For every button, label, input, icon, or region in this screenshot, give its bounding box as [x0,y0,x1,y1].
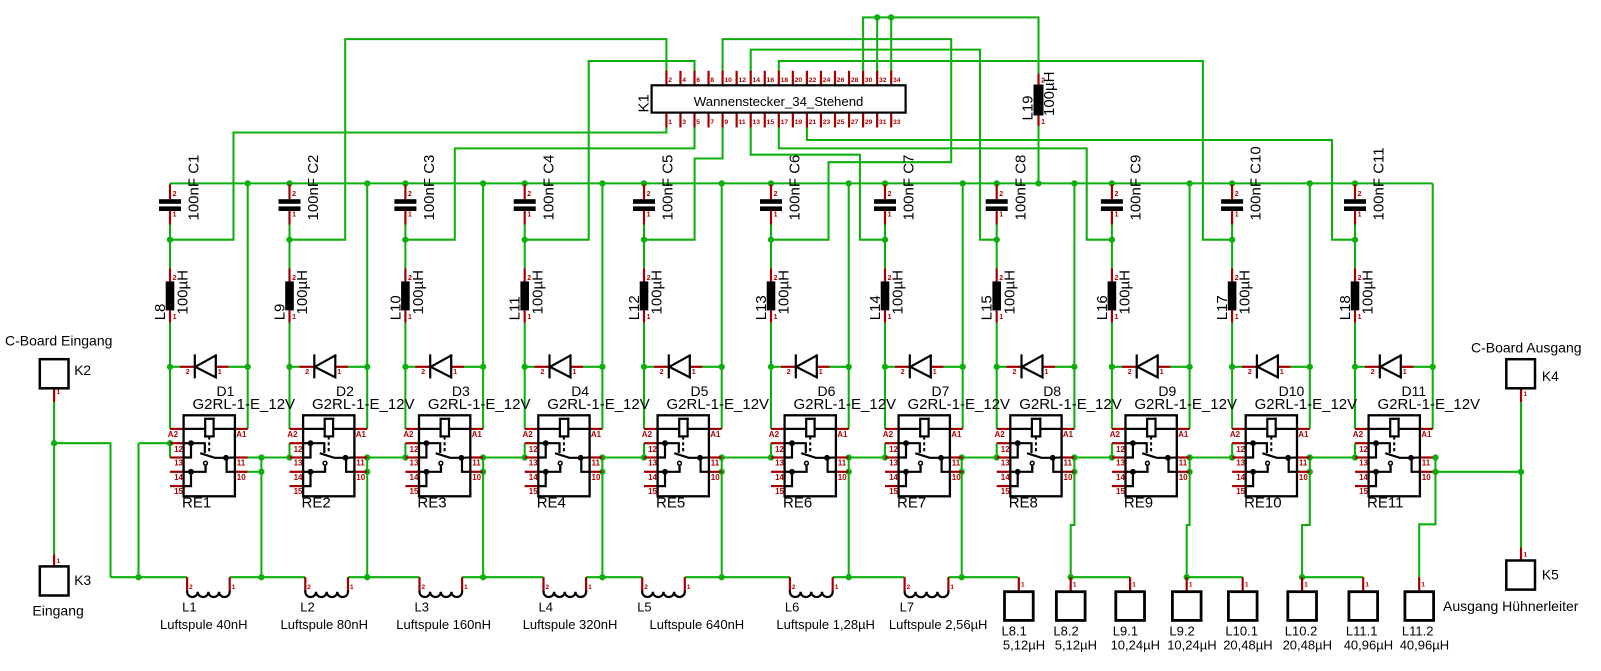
svg-text:23: 23 [823,119,831,126]
svg-text:RE10: RE10 [1244,495,1282,512]
svg-text:10: 10 [1064,473,1073,482]
svg-text:G2RL-1-E_12V: G2RL-1-E_12V [547,396,650,413]
svg-text:13: 13 [1359,458,1368,467]
svg-text:L10: L10 [387,295,404,320]
svg-text:K3: K3 [74,573,91,588]
svg-text:100µH: 100µH [1041,71,1058,116]
svg-text:2: 2 [1248,369,1252,376]
svg-text:2: 2 [408,191,412,198]
svg-text:Luftspule 160nH: Luftspule 160nH [396,617,491,632]
svg-text:21: 21 [809,119,817,126]
svg-text:2: 2 [1358,191,1362,198]
svg-text:100nF C9: 100nF C9 [1128,155,1145,221]
svg-text:40,96µH: 40,96µH [1400,638,1449,653]
svg-text:2: 2 [660,369,664,376]
svg-text:11: 11 [237,458,246,467]
svg-text:1: 1 [1358,212,1362,219]
svg-text:Luftspule 1,28µH: Luftspule 1,28µH [776,617,875,632]
svg-text:2: 2 [901,369,905,376]
svg-text:K4: K4 [1542,369,1559,384]
svg-text:L11: L11 [507,296,524,320]
svg-text:1: 1 [173,212,177,219]
svg-text:1: 1 [1045,369,1049,376]
svg-text:13: 13 [294,458,303,467]
svg-text:10: 10 [1422,473,1431,482]
svg-text:32: 32 [879,77,887,84]
svg-text:RE2: RE2 [302,495,331,512]
svg-text:10: 10 [952,473,961,482]
svg-text:1: 1 [687,584,691,591]
svg-text:G2RL-1-E_12V: G2RL-1-E_12V [908,396,1011,413]
svg-text:13: 13 [753,119,761,126]
svg-text:100nF C5: 100nF C5 [660,155,677,221]
svg-text:RE7: RE7 [897,495,926,512]
svg-text:L13: L13 [753,295,770,320]
svg-text:A1: A1 [472,430,483,439]
svg-text:A2: A2 [1353,430,1364,439]
svg-text:L9.1: L9.1 [1113,624,1138,639]
svg-text:2: 2 [1013,369,1017,376]
svg-text:7: 7 [710,119,714,126]
svg-text:100nF C4: 100nF C4 [540,155,557,221]
svg-text:Ausgang Hühnerleiter: Ausgang Hühnerleiter [1443,598,1579,614]
svg-text:A1: A1 [1421,430,1432,439]
svg-text:RE9: RE9 [1124,495,1153,512]
svg-text:14: 14 [648,473,657,482]
svg-text:1: 1 [933,369,937,376]
svg-text:18: 18 [781,77,789,84]
svg-text:L18: L18 [1337,295,1354,320]
svg-text:1: 1 [819,369,823,376]
svg-text:A2: A2 [403,430,414,439]
svg-text:A1: A1 [236,430,247,439]
svg-text:11: 11 [738,119,745,126]
svg-text:10: 10 [356,473,365,482]
svg-text:1: 1 [774,212,778,219]
svg-text:L4: L4 [539,600,553,615]
svg-text:1: 1 [835,584,839,591]
svg-text:20,48µH: 20,48µH [1223,638,1272,653]
svg-text:2: 2 [189,584,193,591]
svg-text:11: 11 [356,458,365,467]
svg-text:1: 1 [1115,212,1119,219]
svg-text:A1: A1 [837,430,848,439]
svg-text:1: 1 [1160,369,1164,376]
svg-text:G2RL-1-E_12V: G2RL-1-E_12V [794,396,897,413]
svg-text:2: 2 [186,369,190,376]
svg-text:1: 1 [999,212,1003,219]
svg-text:2: 2 [999,191,1003,198]
svg-text:1: 1 [232,584,236,591]
svg-text:2: 2 [527,191,531,198]
svg-text:1: 1 [218,369,222,376]
svg-text:L7: L7 [900,600,914,615]
svg-text:K2: K2 [74,363,91,378]
svg-text:A1: A1 [710,430,721,439]
svg-text:12: 12 [410,445,419,454]
svg-text:2: 2 [774,191,778,198]
svg-text:100µH: 100µH [294,270,311,315]
svg-text:G2RL-1-E_12V: G2RL-1-E_12V [1019,396,1122,413]
svg-text:3: 3 [682,119,686,126]
svg-text:100nF C11: 100nF C11 [1371,147,1388,220]
svg-text:14: 14 [174,473,183,482]
svg-text:G2RL-1-E_12V: G2RL-1-E_12V [428,396,531,413]
svg-text:2: 2 [644,584,648,591]
svg-text:1: 1 [57,389,61,396]
svg-text:A2: A2 [642,430,653,439]
svg-text:L11.2: L11.2 [1402,624,1434,639]
svg-text:2: 2 [422,584,426,591]
svg-text:G2RL-1-E_12V: G2RL-1-E_12V [193,396,296,413]
svg-text:29: 29 [865,119,873,126]
svg-text:12: 12 [648,445,657,454]
svg-text:33: 33 [893,119,901,126]
svg-text:14: 14 [753,77,761,84]
svg-text:12: 12 [1001,445,1010,454]
svg-text:Wannenstecker_34_Stehend: Wannenstecker_34_Stehend [694,94,864,109]
svg-text:L2: L2 [300,600,314,615]
svg-text:22: 22 [809,77,817,84]
svg-text:A1: A1 [1063,430,1074,439]
svg-text:100nF C10: 100nF C10 [1248,146,1265,220]
svg-text:14: 14 [529,473,538,482]
svg-text:L19: L19 [1020,95,1037,120]
svg-text:Eingang: Eingang [32,603,83,619]
svg-text:14: 14 [294,473,303,482]
svg-text:C-Board Eingang: C-Board Eingang [5,333,112,349]
svg-text:2: 2 [307,584,311,591]
svg-text:12: 12 [294,445,303,454]
svg-text:Luftspule 40nH: Luftspule 40nH [160,617,247,632]
svg-text:2: 2 [792,584,796,591]
svg-text:14: 14 [889,473,898,482]
svg-text:1: 1 [950,584,954,591]
svg-text:2: 2 [292,191,296,198]
svg-text:12: 12 [529,445,538,454]
svg-text:13: 13 [775,458,784,467]
svg-text:100µH: 100µH [410,270,427,315]
svg-text:L12: L12 [626,295,643,320]
svg-text:A1: A1 [591,430,602,439]
svg-text:1: 1 [1365,582,1369,589]
svg-text:10: 10 [1179,473,1188,482]
svg-text:G2RL-1-E_12V: G2RL-1-E_12V [1255,396,1358,413]
svg-text:Luftspule 640nH: Luftspule 640nH [650,617,745,632]
svg-text:2: 2 [1235,191,1239,198]
svg-text:100nF C1: 100nF C1 [186,155,203,221]
svg-text:Luftspule 2,56µH: Luftspule 2,56µH [889,617,988,632]
svg-text:2: 2 [541,369,545,376]
svg-text:A2: A2 [1110,430,1121,439]
svg-text:A2: A2 [995,430,1006,439]
svg-text:1: 1 [692,369,696,376]
svg-text:A2: A2 [883,430,894,439]
svg-text:2: 2 [1128,369,1132,376]
svg-text:1: 1 [57,558,61,565]
svg-text:1: 1 [888,212,892,219]
svg-text:2: 2 [888,191,892,198]
svg-text:2: 2 [1115,191,1119,198]
svg-text:11: 11 [1422,458,1431,467]
svg-text:10,24µH: 10,24µH [1167,638,1216,653]
svg-text:25: 25 [837,119,845,126]
svg-text:12: 12 [775,445,784,454]
svg-text:26: 26 [837,77,845,84]
svg-text:14: 14 [1116,473,1125,482]
svg-text:10: 10 [711,473,720,482]
svg-text:30: 30 [865,77,873,84]
svg-text:A2: A2 [1230,430,1241,439]
svg-text:1: 1 [647,212,651,219]
svg-text:14: 14 [1001,473,1010,482]
svg-text:4: 4 [682,77,686,84]
svg-text:13: 13 [174,458,183,467]
svg-text:L15: L15 [979,295,996,320]
svg-text:15: 15 [767,119,775,126]
svg-text:1: 1 [527,212,531,219]
svg-text:10: 10 [838,473,847,482]
svg-text:L10.1: L10.1 [1225,624,1258,639]
svg-text:11: 11 [1064,458,1073,467]
svg-text:14: 14 [1236,473,1245,482]
svg-text:28: 28 [851,77,859,84]
svg-text:1: 1 [1403,369,1407,376]
svg-text:L8: L8 [152,304,169,321]
svg-text:12: 12 [738,77,746,84]
svg-text:RE11: RE11 [1367,495,1403,512]
svg-text:13: 13 [410,458,419,467]
svg-text:100µH: 100µH [1001,270,1018,315]
svg-text:100µH: 100µH [649,270,666,315]
svg-text:13: 13 [1116,458,1125,467]
svg-text:100µH: 100µH [1360,270,1377,315]
svg-text:40,96µH: 40,96µH [1344,638,1393,653]
svg-text:100µH: 100µH [1237,270,1254,315]
svg-text:2: 2 [787,369,791,376]
svg-text:20: 20 [795,77,803,84]
svg-text:12: 12 [1359,445,1368,454]
svg-text:100nF C3: 100nF C3 [421,155,438,221]
svg-text:2: 2 [546,584,550,591]
svg-text:L3: L3 [415,600,429,615]
svg-text:1: 1 [1280,369,1284,376]
svg-text:1: 1 [1421,582,1425,589]
svg-text:1: 1 [1304,582,1308,589]
svg-text:11: 11 [838,458,847,467]
svg-text:1: 1 [573,369,577,376]
svg-text:RE4: RE4 [537,495,566,512]
svg-text:12: 12 [174,445,183,454]
svg-text:1: 1 [408,212,412,219]
svg-text:13: 13 [1001,458,1010,467]
svg-text:13: 13 [1236,458,1245,467]
svg-text:1: 1 [350,584,354,591]
svg-text:11: 11 [952,458,961,467]
svg-text:1: 1 [1245,582,1249,589]
svg-text:12: 12 [1116,445,1125,454]
svg-text:14: 14 [1359,473,1368,482]
svg-text:9: 9 [724,119,728,126]
svg-text:1: 1 [1189,582,1193,589]
svg-text:10,24µH: 10,24µH [1111,638,1160,653]
svg-text:L1: L1 [182,600,196,615]
svg-text:A2: A2 [769,430,780,439]
svg-text:13: 13 [648,458,657,467]
svg-text:K1: K1 [636,94,653,112]
svg-text:G2RL-1-E_12V: G2RL-1-E_12V [1378,396,1481,413]
svg-text:1: 1 [1235,212,1239,219]
svg-text:12: 12 [1236,445,1245,454]
svg-text:L8.2: L8.2 [1053,624,1078,639]
svg-text:34: 34 [893,77,901,84]
svg-text:2: 2 [647,191,651,198]
svg-text:16: 16 [767,77,775,84]
svg-text:Luftspule 320nH: Luftspule 320nH [523,617,618,632]
svg-text:1: 1 [1021,582,1025,589]
svg-text:RE1: RE1 [182,495,211,512]
svg-text:1: 1 [668,119,672,126]
svg-text:5,12µH: 5,12µH [1055,638,1097,653]
svg-text:1: 1 [453,369,457,376]
svg-text:L14: L14 [867,295,884,320]
svg-text:A2: A2 [523,430,534,439]
svg-text:K5: K5 [1542,568,1559,583]
svg-text:27: 27 [851,119,859,126]
svg-text:100nF C2: 100nF C2 [305,155,322,221]
svg-text:RE8: RE8 [1009,495,1038,512]
svg-text:A1: A1 [951,430,962,439]
svg-text:5: 5 [696,119,700,126]
svg-text:RE3: RE3 [417,495,446,512]
svg-text:31: 31 [879,119,887,126]
svg-text:8: 8 [710,77,714,84]
svg-text:1: 1 [1132,582,1136,589]
svg-text:24: 24 [823,77,831,84]
svg-text:2: 2 [305,369,309,376]
svg-text:100nF C8: 100nF C8 [1012,155,1029,221]
svg-text:100µH: 100µH [890,270,907,315]
svg-text:17: 17 [781,119,789,126]
svg-text:20,48µH: 20,48µH [1283,638,1332,653]
svg-text:10: 10 [1299,473,1308,482]
svg-text:19: 19 [795,119,803,126]
svg-text:A1: A1 [1298,430,1309,439]
svg-text:5,12µH: 5,12µH [1003,638,1045,653]
svg-text:11: 11 [1299,458,1308,467]
svg-text:Luftspule 80nH: Luftspule 80nH [281,617,368,632]
svg-text:100µH: 100µH [776,270,793,315]
svg-text:L5: L5 [637,600,651,615]
svg-text:L9: L9 [272,304,289,321]
svg-text:L17: L17 [1214,295,1231,320]
svg-text:A2: A2 [168,430,179,439]
svg-text:10: 10 [724,77,732,84]
svg-text:11: 11 [1179,458,1188,467]
svg-text:L6: L6 [785,600,799,615]
svg-text:11: 11 [711,458,720,467]
svg-text:L16: L16 [1094,295,1111,320]
svg-text:1: 1 [464,584,468,591]
svg-text:1: 1 [1073,582,1077,589]
svg-text:A1: A1 [1178,430,1189,439]
svg-text:14: 14 [410,473,419,482]
svg-text:G2RL-1-E_12V: G2RL-1-E_12V [1134,396,1237,413]
svg-text:C-Board Ausgang: C-Board Ausgang [1471,340,1582,356]
svg-text:13: 13 [529,458,538,467]
svg-text:2: 2 [668,77,672,84]
svg-text:RE5: RE5 [656,495,685,512]
svg-text:L10.2: L10.2 [1285,624,1318,639]
svg-text:14: 14 [775,473,784,482]
svg-text:13: 13 [889,458,898,467]
svg-text:1: 1 [588,584,592,591]
svg-text:100nF C7: 100nF C7 [901,155,918,221]
svg-text:1: 1 [337,369,341,376]
svg-text:6: 6 [696,77,700,84]
svg-text:10: 10 [592,473,601,482]
svg-text:RE6: RE6 [783,495,812,512]
svg-text:1: 1 [1524,391,1528,398]
svg-text:100µH: 100µH [175,270,192,315]
svg-text:G2RL-1-E_12V: G2RL-1-E_12V [312,396,415,413]
svg-text:11: 11 [472,458,481,467]
svg-text:1: 1 [1041,119,1045,126]
svg-text:A1: A1 [356,430,367,439]
svg-text:12: 12 [889,445,898,454]
svg-text:2: 2 [1371,369,1375,376]
svg-text:2: 2 [421,369,425,376]
svg-text:10: 10 [472,473,481,482]
svg-text:1: 1 [1524,552,1528,559]
svg-text:1: 1 [292,212,296,219]
svg-text:L9.2: L9.2 [1169,624,1194,639]
svg-text:2: 2 [173,191,177,198]
svg-text:11: 11 [592,458,601,467]
svg-text:G2RL-1-E_12V: G2RL-1-E_12V [667,396,770,413]
svg-text:100nF C6: 100nF C6 [787,155,804,221]
svg-text:A2: A2 [287,430,298,439]
svg-text:100µH: 100µH [1117,270,1134,315]
svg-text:L11.1: L11.1 [1346,624,1378,639]
svg-text:100µH: 100µH [529,270,546,315]
svg-text:10: 10 [237,473,246,482]
svg-text:L8.1: L8.1 [1002,624,1027,639]
svg-text:2: 2 [907,584,911,591]
